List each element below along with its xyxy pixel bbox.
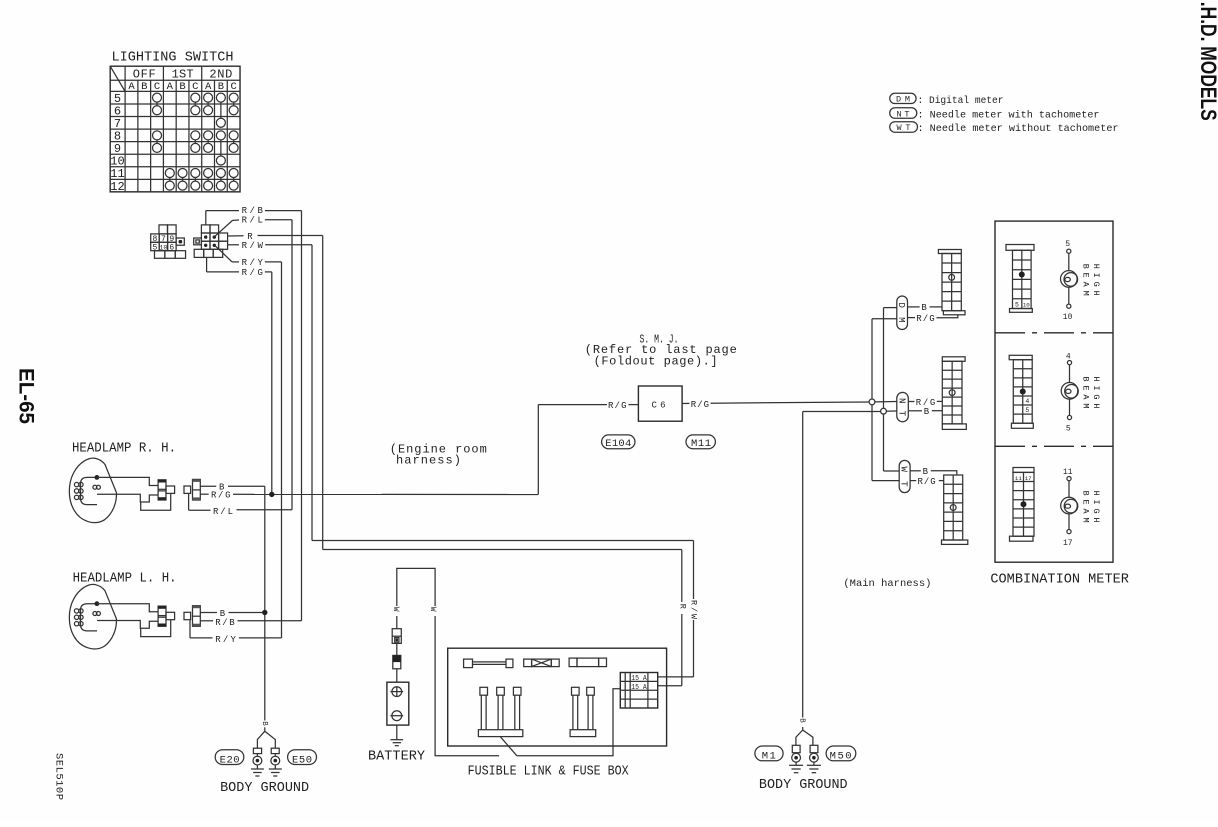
harness connector block (NT): [942, 357, 965, 362]
svg-text:B: B: [924, 407, 930, 417]
connector code E50: [288, 750, 317, 765]
svg-text:R/Y: R/Y: [242, 258, 264, 268]
fusible link and fuse box outline: [448, 648, 667, 746]
fusible link 3: [569, 658, 577, 667]
battery ground: [396, 725, 398, 740]
svg-text:E50: E50: [292, 754, 312, 766]
svg-text:R/G: R/G: [691, 400, 709, 410]
svg-text:15 A: 15 A: [631, 684, 647, 692]
wire R/B (lighting switch to headlamp L.H.): [205, 211, 207, 225]
lighting switch connector (wire side): [201, 225, 210, 233]
body ground E20/E50 assembly: [257, 727, 264, 748]
fuse holder group 2: [570, 730, 596, 737]
connector code M1: [755, 746, 783, 761]
lighting switch contact links: [156, 102, 158, 106]
svg-text:BODY GROUND: BODY GROUND: [759, 777, 848, 793]
svg-text:R/L: R/L: [242, 216, 263, 226]
svg-text:BODY GROUND: BODY GROUND: [220, 780, 309, 796]
legend connector code DM: [890, 93, 916, 103]
svg-text:COMBINATION METER: COMBINATION METER: [990, 571, 1129, 587]
svg-text:C: C: [192, 81, 198, 93]
svg-text:BATTERY: BATTERY: [368, 748, 426, 764]
meter connector block (needle meter w/o tach section): [1013, 468, 1034, 473]
harness connector block (DM): [938, 250, 961, 254]
wire R (lighting switch to fuse box): [228, 235, 244, 237]
body ground M1/M50 assembly: [796, 730, 803, 745]
svg-text:7: 7: [161, 235, 166, 244]
svg-text:B: B: [923, 467, 929, 477]
svg-text:R/Y: R/Y: [215, 635, 236, 645]
wire R/Y (lighting switch to headlamp L.H.): [215, 245, 233, 262]
headlamp L.H. (same symbol reused): [69, 584, 200, 648]
node: B junction (open): [881, 408, 887, 414]
lighting switch connector pin layout: [159, 225, 168, 234]
wire B / R-G stubs at DM: [908, 306, 920, 308]
fusible link 2: [524, 659, 532, 667]
svg-text:R/G: R/G: [916, 314, 935, 324]
svg-text:B: B: [141, 81, 147, 93]
svg-text:5: 5: [152, 243, 157, 252]
svg-text:2ND: 2ND: [209, 68, 232, 82]
node: R/G junction (open): [869, 399, 875, 405]
svg-text:10: 10: [1063, 313, 1073, 322]
svg-text:B: B: [797, 718, 805, 723]
svg-text:R/G: R/G: [608, 401, 627, 411]
svg-text:5: 5: [1066, 425, 1071, 434]
svg-text:HEADLAMP R. H.: HEADLAMP R. H.: [72, 442, 176, 457]
svg-text:harness): harness): [396, 453, 461, 467]
connector code M11: [686, 435, 715, 449]
svg-text:A: A: [128, 81, 135, 93]
svg-text:B: B: [219, 483, 225, 493]
svg-text:M11: M11: [691, 438, 711, 450]
wire R/G (lighting switch / headlamp R.H. to S.M.J.): [206, 257, 208, 272]
svg-text:B: B: [921, 303, 927, 313]
svg-text:EL-65: EL-65: [14, 368, 37, 424]
svg-text:LIGHTING SWITCH: LIGHTING SWITCH: [112, 49, 234, 65]
node: R/G junction at headlamp R.H.: [269, 492, 274, 497]
combination meter box: [995, 221, 1113, 562]
connector WT: [899, 460, 910, 492]
svg-text:5: 5: [1015, 301, 1019, 308]
svg-text:B: B: [218, 81, 224, 93]
svg-text:10: 10: [1023, 301, 1030, 308]
svg-text:12: 12: [110, 180, 124, 194]
wire W (battery feed): [397, 568, 499, 755]
svg-text:(Foldout page).]: (Foldout page).]: [594, 354, 718, 368]
svg-text:4: 4: [1025, 398, 1029, 405]
svg-text:B: B: [260, 721, 268, 726]
fuse holder group 1: [478, 730, 522, 737]
node: B junction at headlamp L.H.: [262, 610, 267, 615]
wire B (headlamps to body ground E20/E50): [200, 485, 216, 487]
svg-text:: Needle meter without tachome: : Needle meter without tachometer: [918, 123, 1119, 135]
lighting switch contact circles: [153, 93, 162, 102]
harness connector block (WT): [942, 540, 968, 544]
svg-text:C: C: [230, 81, 236, 93]
svg-text:R/B: R/B: [215, 618, 235, 628]
fusible link connector (battery): [392, 629, 401, 644]
svg-text:R: R: [678, 604, 688, 609]
svg-text:W: W: [428, 607, 437, 612]
fuse block with 15A fuses: [620, 673, 657, 709]
svg-text:17: 17: [1025, 475, 1032, 482]
svg-text:B: B: [179, 81, 185, 93]
svg-text:M50: M50: [830, 751, 852, 763]
wire R/L (lighting switch to headlamp R.H.): [215, 220, 233, 236]
fusible link 1: [464, 659, 473, 668]
lighting switch table grid: [110, 66, 240, 192]
wire R/G (meter branch verticals): [871, 319, 873, 399]
wire B (meter branch verticals): [883, 308, 885, 409]
svg-text:10: 10: [159, 244, 167, 252]
connector code E20: [215, 750, 244, 765]
wire B / R-G stubs at WT: [910, 470, 921, 472]
wire R/G (engine room harness, into C6): [538, 404, 607, 406]
svg-text:B: B: [220, 609, 226, 619]
svg-text:R/W: R/W: [242, 241, 264, 251]
svg-text:E20: E20: [220, 754, 240, 766]
svg-text:6: 6: [169, 243, 174, 252]
legend connector code WT: [890, 122, 918, 133]
svg-text:11: 11: [1015, 475, 1022, 482]
svg-text:.H.D. MODELS: .H.D. MODELS: [1196, 2, 1218, 121]
fusible link (battery lead): [393, 655, 401, 668]
connector NT: [897, 392, 909, 421]
svg-text:W: W: [391, 607, 400, 612]
svg-text:5: 5: [1065, 240, 1070, 249]
svg-text:11: 11: [1063, 468, 1073, 477]
meter connector block (needle meter w/ tach section): [1009, 355, 1032, 359]
svg-text:SEL510P: SEL510P: [53, 753, 65, 800]
legend connector code NT: [890, 108, 917, 119]
svg-text:: Needle meter with tachometer: : Needle meter with tachometer: [918, 109, 1100, 121]
wire R/G / B stubs at NT: [908, 401, 914, 403]
svg-text:17: 17: [1063, 539, 1073, 548]
svg-text:A: A: [167, 81, 174, 93]
svg-text:(Main harness): (Main harness): [843, 578, 931, 590]
connector code E104: [602, 435, 635, 449]
svg-text:: Digital meter: : Digital meter: [918, 95, 1004, 107]
connector DM: [897, 296, 908, 330]
svg-text:OFF: OFF: [133, 68, 156, 82]
connector code M50: [826, 746, 856, 761]
svg-text:FUSIBLE LINK & FUSE BOX: FUSIBLE LINK & FUSE BOX: [468, 764, 629, 780]
svg-text:E104: E104: [605, 438, 631, 450]
svg-text:1ST: 1ST: [172, 68, 194, 82]
meter connector block (digital meter section): [1006, 245, 1034, 251]
svg-text:5: 5: [1025, 407, 1029, 414]
svg-text:R/L: R/L: [213, 507, 233, 517]
S.M.J. terminal C6: [638, 386, 682, 421]
svg-text:HEADLAMP L. H.: HEADLAMP L. H.: [73, 571, 177, 586]
svg-text:R/G: R/G: [918, 477, 936, 487]
svg-text:15 A: 15 A: [631, 675, 647, 683]
wire B (to body ground M1/M50): [803, 411, 881, 413]
svg-text:R/G: R/G: [242, 268, 263, 278]
headlamp R.H.: [69, 458, 200, 522]
wire R/G (main harness, C6 to meters): [682, 402, 689, 404]
wire R/W (lighting switch to fuse box): [228, 244, 239, 246]
svg-text:A: A: [205, 81, 212, 93]
battery: [387, 682, 409, 725]
svg-text:R/W: R/W: [689, 600, 699, 620]
svg-text:M1: M1: [762, 751, 776, 763]
svg-text:C: C: [154, 81, 160, 93]
